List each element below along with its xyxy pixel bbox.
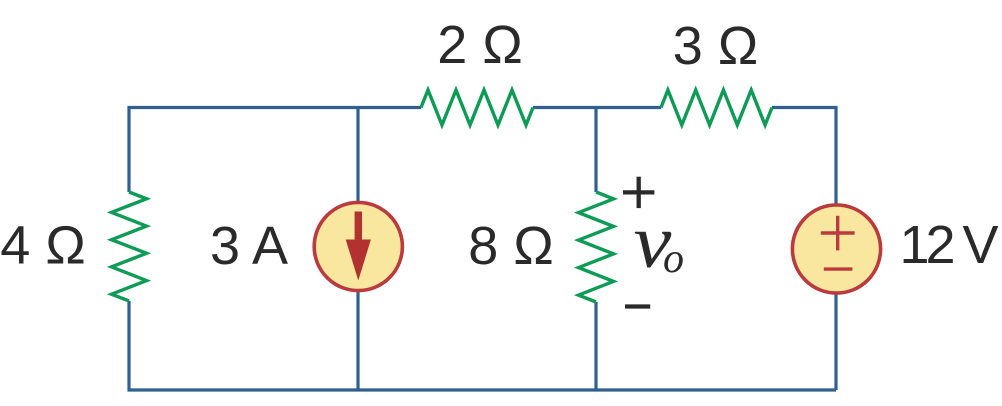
svg-text:3 A: 3 A — [210, 216, 288, 276]
svg-text:12 V: 12 V — [899, 215, 998, 275]
svg-text:o: o — [663, 236, 684, 282]
svg-text:8 Ω: 8 Ω — [468, 216, 553, 276]
svg-text:3 Ω: 3 Ω — [673, 16, 758, 76]
svg-text:2 Ω: 2 Ω — [437, 15, 522, 75]
svg-text:4 Ω: 4 Ω — [0, 216, 85, 276]
